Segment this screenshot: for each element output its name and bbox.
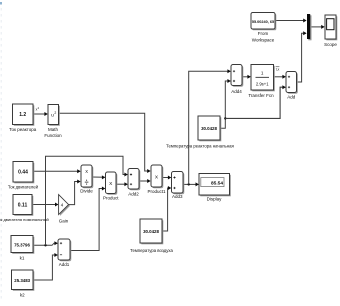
svg-text:75.3796: 75.3796 [14, 242, 30, 247]
svg-text:Ток двигателей: Ток двигателей [8, 185, 39, 190]
svg-text:0.44: 0.44 [18, 170, 28, 176]
svg-text:Function: Function [44, 133, 62, 138]
svg-text:Math: Math [48, 127, 59, 132]
svg-text:1.2: 1.2 [19, 112, 26, 118]
svg-text:25.3483: 25.3483 [14, 278, 30, 283]
svg-text:Product: Product [103, 196, 119, 201]
svg-text:0.11: 0.11 [18, 203, 28, 209]
svg-text:Product1: Product1 [147, 189, 166, 194]
svg-text:30.0428: 30.0428 [201, 126, 217, 131]
svg-text:30.0428: 30.0428 [143, 229, 159, 234]
svg-text:Температура реактора начальная: Температура реактора начальная [166, 143, 234, 148]
svg-text:1: 1 [261, 70, 264, 75]
svg-text:k2: k2 [20, 293, 25, 298]
svg-text:Transfer Fcn: Transfer Fcn [248, 93, 274, 98]
svg-text:2: 2 [54, 111, 56, 115]
svg-text:Температура воздуха: Температура воздуха [130, 248, 173, 253]
svg-text:Divide: Divide [80, 188, 93, 193]
svg-text:Add1: Add1 [59, 262, 70, 267]
svg-text:Add3: Add3 [172, 194, 183, 199]
svg-text:85.54: 85.54 [211, 181, 223, 187]
svg-text:Ток реактора: Ток реактора [9, 127, 37, 132]
svg-text:Scope: Scope [324, 42, 337, 47]
svg-text:Add: Add [287, 94, 296, 99]
svg-text:From: From [258, 31, 269, 36]
svg-text:X: X [85, 169, 88, 174]
svg-text:Add4: Add4 [231, 89, 242, 94]
svg-text:t,x: t,x [276, 68, 280, 72]
svg-text:Add2: Add2 [128, 192, 139, 197]
svg-text:Gain: Gain [59, 218, 69, 223]
svg-text:k1: k1 [20, 255, 25, 260]
svg-text:Ток двигателя номинальный: Ток двигателя номинальный [0, 217, 49, 222]
svg-text:55.00240, 65: 55.00240, 65 [252, 20, 274, 24]
svg-text:Workspace: Workspace [252, 37, 275, 42]
svg-text:Display: Display [207, 196, 223, 201]
svg-text:2.9s+1: 2.9s+1 [256, 82, 269, 87]
